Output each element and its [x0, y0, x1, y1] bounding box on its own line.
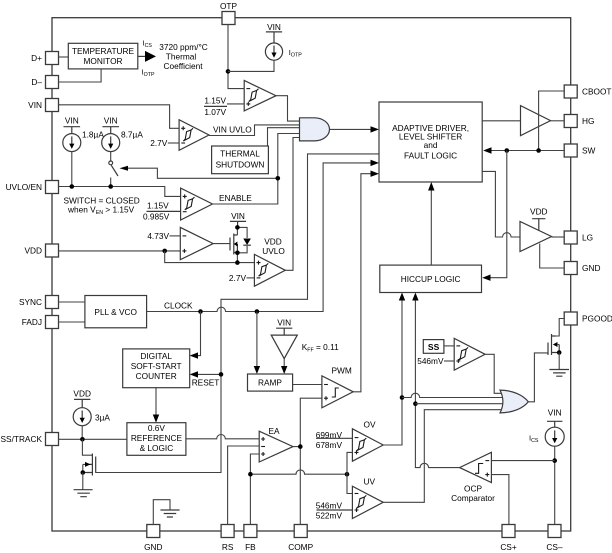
wire D+ to temperature monitor: [59, 56, 69, 58]
0.6V reference and logic box: [127, 423, 186, 456]
pin FB: [244, 525, 257, 553]
SS soft-start reference box: [423, 340, 444, 354]
svg-text:MONITOR: MONITOR: [83, 56, 122, 66]
node reset junction: [219, 372, 224, 377]
wire hiccup logic up to adaptive driver: [428, 182, 434, 265]
label OCP Comparator: [451, 483, 495, 503]
svg-text:RS: RS: [222, 542, 234, 552]
wire CS+ pin to OCP plus: [491, 475, 509, 525]
VDD supply bar above LG driver: [530, 207, 548, 230]
feedforward divider triangle KFF: [271, 335, 297, 359]
svg-text:VIN: VIN: [267, 22, 281, 32]
svg-text:Comparator: Comparator: [451, 493, 495, 503]
svg-text:D+: D+: [31, 53, 42, 63]
wire OTP comparator output to AND gate: [276, 96, 300, 121]
comparator ENABLE (1.15V/0.985V): [181, 188, 213, 220]
wire VIN pin to VIN UVLO comparator: [59, 105, 180, 129]
pin CS-: [546, 525, 563, 553]
wire fault net from FB rail to adaptive driver: [96, 154, 379, 473]
pin PGOOD: [564, 312, 612, 325]
pin HG: [564, 115, 594, 128]
current source 8.7uA: [102, 129, 144, 151]
svg-text:REFERENCE: REFERENCE: [131, 433, 183, 443]
svg-text:VIN: VIN: [277, 317, 291, 327]
svg-text:COMP: COMP: [288, 542, 313, 552]
svg-text:1.8µA: 1.8µA: [82, 129, 104, 139]
ground below PGOOD FET: [549, 353, 569, 377]
wire reset into soft-start counter: [190, 371, 221, 377]
label SWITCH = CLOSED: [64, 195, 140, 216]
wire soft-start counter to reference: [153, 388, 159, 423]
wire SW sense down to hiccup logic: [482, 151, 507, 281]
wire FB node to UV minus input: [347, 474, 352, 493]
wire ICS to CS- pin: [554, 446, 556, 524]
svg-text:SHUTDOWN: SHUTDOWN: [216, 159, 265, 169]
comparator VIN UVLO: [179, 120, 209, 151]
comparator OTP (1.15V/1.07V): [244, 81, 276, 111]
svg-text:TEMPERATURE: TEMPERATURE: [72, 46, 135, 56]
pin RS: [221, 525, 234, 553]
ground below soft-start FET: [74, 473, 93, 497]
node switch junction: [108, 184, 113, 189]
current source IOTP: [265, 43, 282, 60]
wire KFF to ramp: [281, 359, 287, 374]
node VDD junction: [162, 249, 167, 254]
svg-text:FB: FB: [245, 542, 256, 552]
pll and vco box: [85, 296, 147, 328]
AND gate fault logic: [300, 118, 330, 141]
label 546mV at SS comparator: [417, 356, 454, 366]
svg-text:1.07V: 1.07V: [204, 107, 226, 117]
transistor VDD switch NMOS: [230, 227, 237, 262]
node SS/TRACK junction: [80, 437, 85, 442]
pin OTP: [220, 1, 238, 25]
comparator soft-start SS: [454, 338, 485, 370]
wire UV output to OR gate: [383, 410, 504, 503]
driver LG: [520, 222, 552, 252]
svg-text:0.985V: 0.985V: [143, 212, 170, 222]
transistor soft-start discharge NMOS: [82, 439, 95, 475]
wire RS pin to EA minus: [228, 446, 260, 525]
svg-text:0.6V: 0.6V: [148, 423, 166, 433]
node 1.8uA junction: [70, 184, 75, 189]
wire 3uA to SS/TRACK rail: [81, 426, 83, 440]
wire OV output up to hiccup logic: [383, 293, 405, 446]
svg-text:IOTP: IOTP: [142, 68, 155, 79]
node OTP junction: [226, 69, 231, 74]
svg-text:LG: LG: [582, 233, 593, 243]
svg-text:PGOOD: PGOOD: [582, 314, 612, 324]
svg-text:SW: SW: [582, 146, 596, 156]
svg-text:2.7V: 2.7V: [229, 273, 247, 283]
svg-text:ICS: ICS: [529, 433, 539, 444]
svg-text:VIN: VIN: [548, 408, 562, 418]
node FB junction: [248, 472, 253, 477]
comparator 4.73V: [180, 227, 213, 259]
pin VDD: [24, 244, 58, 257]
node FET drain: [235, 225, 240, 230]
svg-text:SYNC: SYNC: [19, 297, 42, 307]
svg-text:546mV: 546mV: [417, 356, 444, 366]
pin LG: [564, 231, 593, 244]
label 4.73V: [147, 231, 180, 241]
wire SYNC to pll: [59, 301, 85, 303]
svg-text:Thermal: Thermal: [166, 52, 197, 62]
wire ramp to PWM comparator: [293, 384, 322, 386]
wire FADJ to pll: [59, 321, 85, 323]
VDD supply bar for 3uA source: [73, 388, 91, 407]
svg-text:ENABLE: ENABLE: [219, 193, 252, 203]
error amplifier EA: [259, 431, 293, 462]
wire SW line to adaptive driver: [483, 147, 564, 153]
wire OTP pin down to node: [228, 25, 244, 89]
pin CS+: [500, 525, 517, 553]
wire GND pin to LG driver return: [540, 244, 565, 269]
hiccup logic box: [380, 265, 482, 292]
pin D-: [31, 76, 58, 89]
svg-text:2.7V: 2.7V: [150, 138, 168, 148]
VIN supply bar for IOTP source: [266, 22, 282, 43]
thermal shutdown box: [212, 146, 269, 174]
node clock branch to ramp: [255, 309, 260, 314]
svg-text:PLL & VCO: PLL & VCO: [94, 307, 137, 317]
svg-text:3µA: 3µA: [95, 412, 110, 422]
wire comparator to FET gate: [213, 243, 230, 245]
svg-text:522mV: 522mV: [316, 511, 343, 521]
svg-text:DIGITAL: DIGITAL: [140, 351, 172, 361]
node enable feedback junction: [276, 176, 281, 181]
svg-text:1.15V: 1.15V: [147, 200, 169, 210]
pin SYNC: [19, 296, 59, 309]
node SW-CBOOT junction: [536, 148, 541, 153]
VIN supply bar for 1.8uA source: [64, 116, 81, 134]
svg-text:678mV: 678mV: [316, 440, 343, 450]
svg-text:1.15V: 1.15V: [204, 96, 226, 106]
wire SS comparator to OR gate: [485, 354, 502, 393]
wire CBOOT rail through driver: [539, 91, 565, 151]
svg-text:VIN: VIN: [65, 116, 79, 126]
temperature monitor box U-TM: [68, 43, 138, 69]
svg-text:SS/TRACK: SS/TRACK: [1, 434, 43, 444]
svg-text:VIN: VIN: [104, 116, 118, 126]
wire FB node to OV plus input: [347, 452, 352, 474]
wire AND gate output to adaptive driver: [330, 126, 380, 132]
pin GND bottom: [144, 525, 162, 553]
comparator UV: [352, 486, 383, 518]
wire node to IOTP source: [228, 60, 274, 71]
wire 1.8uA source to UVLO/EN rail: [71, 152, 73, 187]
svg-text:Coefficient: Coefficient: [163, 61, 203, 71]
svg-text:UV: UV: [364, 477, 376, 487]
body diode of VDD switch: [237, 227, 251, 252]
pin VIN: [28, 99, 58, 112]
wire OR gate output to PGOOD FET gate: [528, 353, 548, 402]
node CS- sense junction: [552, 458, 557, 463]
svg-text:OCP: OCP: [464, 483, 482, 493]
wire OV node to OR gate with hop: [402, 393, 503, 397]
comparator OCP (points left): [460, 452, 492, 482]
label IOTP: [289, 48, 302, 59]
comparator OV: [352, 429, 383, 461]
outer IC boundary: [52, 18, 571, 531]
current source 3uA: [73, 408, 110, 426]
svg-text:4.73V: 4.73V: [147, 231, 169, 241]
arrow pointing at switch from enable feedback: [120, 166, 278, 179]
svg-text:UVLO/EN: UVLO/EN: [6, 182, 42, 192]
svg-text:546mV: 546mV: [316, 500, 343, 510]
svg-text:VIN: VIN: [231, 211, 245, 221]
wire adaptive driver to HG driver: [482, 120, 520, 122]
label 1.15V over 0.985V: [143, 200, 181, 221]
svg-text:VIN UVLO: VIN UVLO: [213, 125, 252, 135]
wire FB pin to EA and comparators: [250, 454, 347, 525]
wire VDD pin to 4.73V comparator: [59, 250, 181, 252]
svg-text:& LOGIC: & LOGIC: [140, 443, 174, 453]
node VDD UVLO rail: [235, 260, 240, 265]
svg-text:VDD: VDD: [24, 246, 42, 256]
wire VDD UVLO output up to AND gate: [285, 138, 299, 271]
svg-text:GND: GND: [144, 542, 162, 552]
svg-text:GND: GND: [582, 263, 600, 273]
VIN supply bar above VDD switch FET: [230, 211, 246, 228]
svg-text:CBOOT: CBOOT: [582, 87, 612, 97]
wire OCP output up to hiccup logic: [412, 293, 459, 468]
adaptive driver level shifter fault logic box: [379, 102, 482, 182]
wire thermal shutdown to AND gate: [268, 128, 300, 146]
comparator VDD UVLO: [254, 254, 285, 286]
node source-body tie: [81, 470, 86, 475]
node OV to OR junction: [400, 395, 405, 400]
pin UVLO/EN: [6, 181, 59, 194]
digital soft-start counter box: [123, 349, 190, 388]
label 2.7V at VIN UVLO: [150, 138, 179, 148]
svg-text:OV: OV: [364, 419, 376, 429]
svg-text:CS+: CS+: [500, 542, 517, 552]
VIN supply bar for 8.7uA source: [102, 116, 119, 134]
VIN supply bar for ICS source: [547, 408, 562, 428]
label 3720 ppm/degC thermal coefficient: [159, 42, 208, 71]
svg-text:RESET: RESET: [192, 377, 220, 387]
wire reference to EA plus: [186, 435, 259, 439]
svg-text:VDD: VDD: [530, 207, 548, 217]
pin FADJ: [22, 316, 59, 329]
label VDD UVLO: [262, 237, 285, 256]
pin D+: [31, 52, 58, 65]
wire EA output node to COMP pin: [293, 447, 300, 525]
svg-text:OTP: OTP: [220, 1, 238, 11]
svg-text:and: and: [424, 140, 438, 150]
wire PWM output to adaptive driver: [353, 171, 379, 392]
VIN supply bar for feedforward: [276, 317, 292, 335]
svg-text:ICS: ICS: [143, 39, 153, 50]
svg-text:SS: SS: [428, 342, 440, 352]
driver HG: [521, 106, 551, 136]
svg-text:IOTP: IOTP: [289, 48, 302, 59]
node FET source: [235, 251, 240, 256]
pin COMP: [288, 525, 313, 553]
ramp generator box: [248, 374, 293, 391]
transistor PGOOD pulldown NMOS: [548, 319, 564, 356]
temp monitor output arrow: [138, 51, 156, 62]
svg-text:3720 ppm/°C: 3720 ppm/°C: [159, 42, 208, 52]
wire VIN UVLO output to AND gate: [209, 125, 300, 136]
wire HG driver to HG pin: [551, 120, 565, 122]
switch contact and blade: [109, 152, 118, 187]
node OCP to OR junction: [413, 401, 418, 406]
svg-text:VDD: VDD: [73, 388, 91, 398]
svg-text:VIN: VIN: [28, 100, 42, 110]
pin CBOOT: [564, 85, 611, 98]
wire CS- node to OCP minus: [491, 460, 554, 462]
svg-text:COUNTER: COUNTER: [136, 371, 177, 381]
svg-text:D–: D–: [31, 77, 42, 87]
wire EA output to PWM plus input: [300, 398, 322, 446]
node PGOOD FET source-body: [557, 350, 562, 355]
label ICS: [529, 433, 539, 444]
node SW-hiccup junction: [505, 148, 510, 153]
pin SW: [564, 144, 595, 157]
svg-text:CLOCK: CLOCK: [164, 300, 193, 310]
svg-text:FADJ: FADJ: [22, 317, 42, 327]
svg-text:KFF = 0.11: KFF = 0.11: [302, 342, 339, 354]
current source 1.8uA: [63, 129, 105, 151]
node clock branch to soft-start counter: [198, 309, 203, 314]
current source ICS: [545, 427, 564, 446]
pin SS/TRACK: [1, 433, 59, 446]
label ICS at temp monitor: [143, 39, 153, 50]
svg-text:PWM: PWM: [332, 366, 352, 376]
wire GND pin hang to ground: [153, 500, 179, 525]
pin GND right: [564, 262, 600, 275]
wire SS box to comparator: [444, 345, 454, 347]
node FB to OV/UV junction: [345, 472, 350, 477]
label 699mV over 678mV: [316, 430, 353, 450]
wire UVLO/EN pin to enable comparator: [59, 187, 181, 197]
comparator PWM: [322, 376, 353, 408]
label IOTP at temp monitor: [142, 68, 155, 79]
svg-text:when VEN > 1.15V: when VEN > 1.15V: [67, 205, 135, 217]
OR gate power good: [500, 390, 528, 413]
label 546mV over 522mV: [316, 500, 353, 520]
svg-text:UVLO: UVLO: [262, 246, 285, 256]
svg-text:EA: EA: [269, 426, 281, 436]
svg-text:CS–: CS–: [546, 542, 563, 552]
node EA output: [298, 444, 303, 449]
wire OCP node to OR gate: [415, 403, 503, 405]
wire ramp reference from clock: [254, 312, 260, 375]
wire VDD down to VDD UVLO comparator: [165, 251, 255, 263]
svg-text:HICCUP LOGIC: HICCUP LOGIC: [401, 274, 461, 284]
wire SS/TRACK pin to reference box: [59, 438, 127, 440]
svg-text:FAULT LOGIC: FAULT LOGIC: [404, 151, 457, 161]
wire adaptive driver to LG driver with hop: [482, 171, 520, 237]
wire clock down into soft-start counter: [190, 312, 201, 359]
svg-text:SOFT-START: SOFT-START: [131, 361, 182, 371]
label 1.15V over 1.07V: [204, 96, 244, 117]
wire clock to adaptive driver: [147, 160, 379, 312]
svg-text:RAMP: RAMP: [258, 378, 282, 388]
svg-text:8.7µA: 8.7µA: [121, 129, 143, 139]
svg-text:HG: HG: [582, 116, 594, 126]
wire D- to temperature monitor bottom: [59, 69, 102, 82]
svg-text:THERMAL: THERMAL: [220, 149, 260, 159]
wire LG driver to LG pin: [552, 236, 565, 238]
wire ENABLE output up to AND gate: [213, 134, 300, 205]
label 2.7V at VDD UVLO: [229, 273, 254, 283]
